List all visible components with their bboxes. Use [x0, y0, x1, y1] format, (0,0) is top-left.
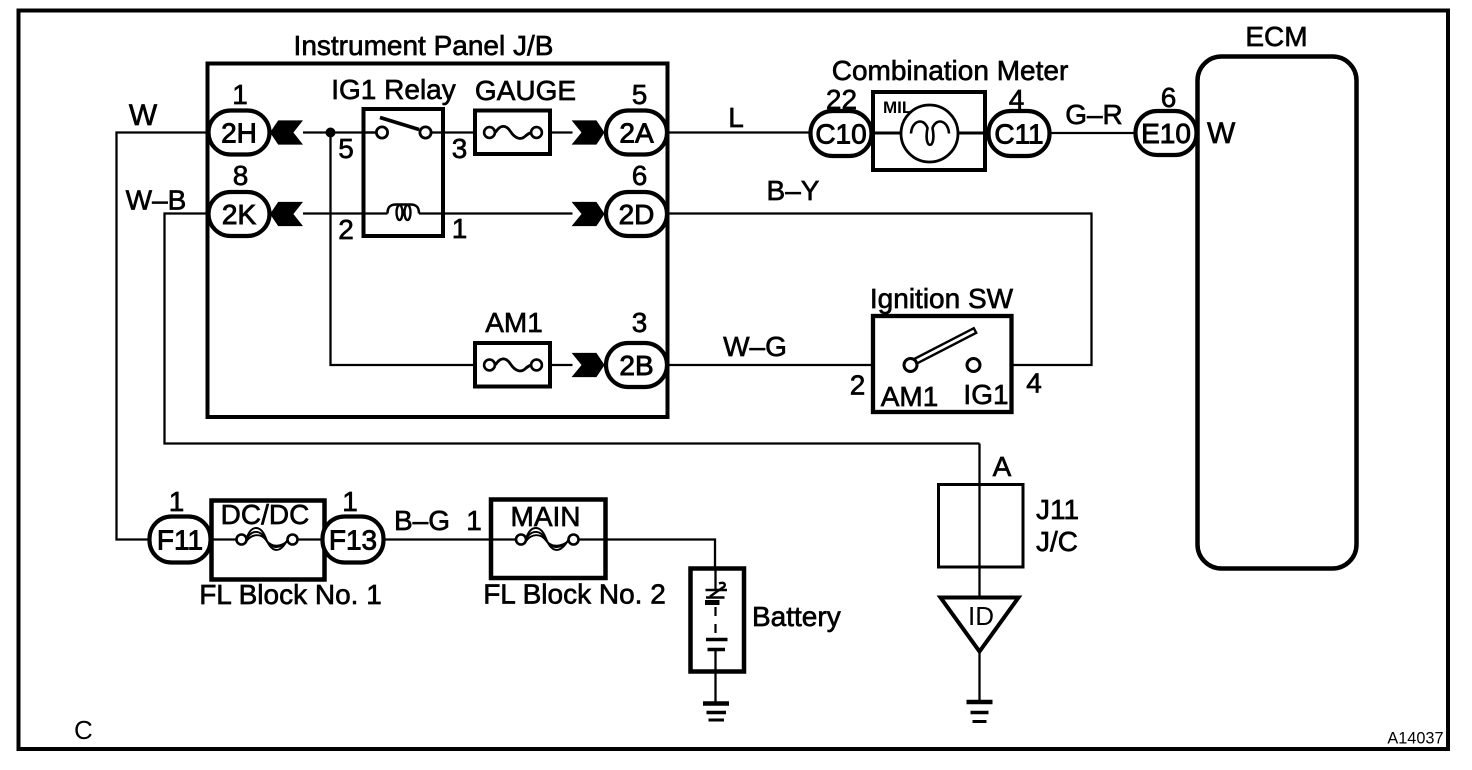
wire down through J11 to ID — [978, 444, 980, 598]
svg-text:C10: C10 — [815, 119, 866, 150]
wire G-R from C11 to E10 — [1050, 132, 1136, 134]
battery — [691, 569, 745, 672]
wire GAUGE fuse to arrow — [550, 131, 573, 133]
svg-text:6: 6 — [632, 160, 648, 191]
connector C10 — [811, 111, 872, 156]
svg-text:Battery: Battery — [752, 601, 841, 632]
connector F13 — [323, 517, 384, 563]
connector arrow into 2B — [572, 353, 605, 377]
connector 2H — [209, 111, 270, 155]
connector arrow into 2A — [572, 120, 605, 144]
svg-text:2A: 2A — [619, 118, 654, 149]
fusible link DC/DC — [212, 501, 325, 580]
relay IG1 — [364, 109, 444, 236]
lamp MIL bulb — [901, 105, 958, 162]
wire relay pin 3 to GAUGE fuse — [443, 131, 475, 133]
svg-text:A14037: A14037 — [1387, 730, 1443, 748]
wire junction down to AM1 fuse row — [331, 133, 476, 366]
wire B-G from F13 to MAIN — [385, 538, 492, 540]
svg-text:4: 4 — [1026, 368, 1042, 399]
svg-text:2K: 2K — [222, 199, 257, 230]
svg-text:3: 3 — [632, 307, 648, 338]
MIL lamp box — [873, 92, 989, 170]
svg-text:2B: 2B — [619, 350, 653, 381]
junction connector J11 J/C box — [939, 485, 1024, 568]
wire B-Y from 2D to Ignition SW pin 4 — [667, 214, 1092, 366]
wire battery to ground — [714, 672, 716, 704]
svg-text:5: 5 — [338, 133, 354, 164]
wire MAIN to battery — [606, 540, 716, 569]
svg-text:Combination Meter: Combination Meter — [832, 55, 1069, 86]
svg-text:2H: 2H — [221, 118, 257, 149]
connector arrow into 2K — [270, 202, 303, 226]
svg-text:GAUGE: GAUGE — [475, 75, 576, 106]
svg-text:J/C: J/C — [1036, 526, 1078, 557]
connector 2D — [606, 192, 667, 236]
svg-text:W–G: W–G — [723, 331, 787, 362]
wire ID to ground — [978, 652, 980, 702]
connector 2K — [209, 192, 270, 236]
svg-text:2: 2 — [850, 370, 866, 401]
ground symbol ID — [967, 702, 993, 722]
svg-text:A: A — [993, 451, 1012, 482]
connector 2B — [606, 343, 667, 387]
svg-text:1: 1 — [342, 486, 358, 517]
svg-text:8: 8 — [233, 160, 249, 191]
svg-text:W: W — [129, 99, 158, 132]
connector 2A — [606, 111, 667, 155]
svg-text:1: 1 — [232, 79, 248, 110]
ECM box — [1198, 57, 1357, 569]
wire L from 2A to C10 — [667, 131, 811, 133]
svg-text:AM1: AM1 — [485, 307, 543, 338]
svg-text:L: L — [728, 102, 744, 133]
ground symbol battery — [703, 704, 729, 721]
svg-text:F13: F13 — [329, 525, 377, 556]
wire W-B from 2K to junction J11 — [165, 214, 980, 444]
svg-text:W–B: W–B — [126, 185, 187, 216]
svg-text:G–R: G–R — [1065, 99, 1123, 130]
svg-text:3: 3 — [452, 133, 468, 164]
svg-text:ID: ID — [968, 601, 994, 631]
svg-text:FL Block No. 1: FL Block No. 1 — [199, 579, 382, 610]
svg-text:C11: C11 — [994, 119, 1043, 150]
fuse GAUGE — [475, 111, 550, 155]
svg-text:IG1 Relay: IG1 Relay — [331, 74, 456, 105]
svg-text:MAIN: MAIN — [511, 501, 581, 532]
svg-text:E10: E10 — [1141, 118, 1191, 149]
svg-text:Instrument Panel J/B: Instrument Panel J/B — [294, 30, 554, 61]
svg-text:2: 2 — [338, 214, 354, 245]
connector C11 — [989, 111, 1050, 156]
switch Ignition SW — [873, 316, 1012, 412]
ground point ID triangle — [941, 598, 1019, 652]
svg-text:AM1: AM1 — [881, 381, 939, 412]
svg-text:W: W — [1207, 117, 1236, 150]
svg-text:DC/DC: DC/DC — [221, 499, 310, 530]
wire from arrow to relay pin 5 with junction — [303, 131, 377, 133]
wire W-G from 2B to Ignition SW pin 2 — [667, 364, 904, 366]
svg-text:2D: 2D — [619, 199, 655, 230]
svg-text:5: 5 — [632, 79, 648, 110]
svg-text:1: 1 — [169, 486, 185, 517]
svg-text:Ignition SW: Ignition SW — [870, 283, 1014, 314]
svg-text:F11: F11 — [157, 525, 203, 556]
connector F11 — [150, 517, 211, 563]
wire AM1 fuse to 2B arrow — [550, 364, 573, 366]
svg-text:6: 6 — [1161, 82, 1177, 113]
connector arrow into 2D — [572, 202, 605, 226]
wire relay pin 1 to 2D arrow — [443, 212, 573, 214]
svg-text:FL Block No. 2: FL Block No. 2 — [483, 579, 666, 610]
fusible link MAIN — [491, 500, 606, 579]
wire W from 2H to F11 — [117, 133, 210, 540]
svg-text:1: 1 — [452, 213, 468, 244]
wire 2K arrow to relay coil pin 2 — [303, 212, 388, 214]
connector E10 — [1136, 111, 1197, 155]
svg-text:1: 1 — [466, 505, 482, 536]
svg-text:C: C — [74, 715, 93, 745]
junction block Instrument Panel J/B box — [208, 64, 668, 418]
svg-text:ECM: ECM — [1245, 21, 1307, 52]
fuse AM1 — [475, 343, 550, 387]
svg-text:IG1: IG1 — [963, 379, 1008, 410]
junction node — [326, 128, 336, 138]
svg-text:J11: J11 — [1036, 494, 1079, 525]
svg-text:B–G: B–G — [394, 505, 450, 536]
connector arrow into 2H — [270, 120, 303, 144]
svg-text:B–Y: B–Y — [767, 175, 820, 206]
